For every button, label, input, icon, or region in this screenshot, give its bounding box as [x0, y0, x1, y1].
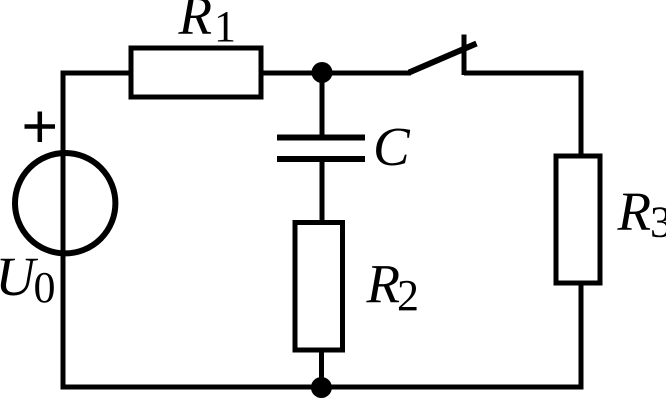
capacitor C top plate: [277, 135, 365, 141]
svg-text:R: R: [178, 0, 213, 46]
svg-text:3: 3: [650, 198, 666, 247]
svg-text:R: R: [366, 254, 401, 315]
resistor R3: [556, 156, 600, 283]
wire right vertical upper (to R3): [579, 71, 584, 159]
svg-text:R: R: [617, 181, 652, 242]
capacitor C bottom plate: [277, 156, 365, 162]
switch post: [462, 35, 467, 76]
wire top-left horizontal (source top to R1): [61, 71, 132, 76]
node A (top junction dot): [312, 62, 333, 83]
label R2: [366, 254, 420, 321]
svg-text:2: 2: [397, 271, 419, 320]
wire node A to capacitor: [320, 73, 325, 140]
resistor R1: [131, 48, 261, 97]
plus polarity mark: [25, 112, 56, 143]
label C: [373, 116, 411, 177]
wire R1 to switch (through node A): [261, 71, 411, 76]
node B (bottom junction dot): [311, 377, 332, 398]
voltage source U0 circle: [15, 153, 115, 253]
wire switch to top-right corner: [464, 71, 584, 76]
svg-text:C: C: [373, 116, 411, 177]
wire left vertical (through source circle): [61, 71, 66, 390]
label U0: [0, 246, 56, 312]
label R3: [617, 181, 666, 247]
svg-text:0: 0: [34, 263, 56, 312]
wire right vertical lower (R3 to bottom): [579, 283, 584, 390]
svg-text:1: 1: [214, 2, 236, 51]
resistor R2: [295, 223, 343, 351]
wire bottom horizontal: [61, 385, 584, 390]
wire R2 to bottom node: [319, 349, 324, 387]
switch blade: [409, 44, 477, 73]
label R1: [178, 0, 237, 51]
wire capacitor to R2: [320, 159, 325, 224]
